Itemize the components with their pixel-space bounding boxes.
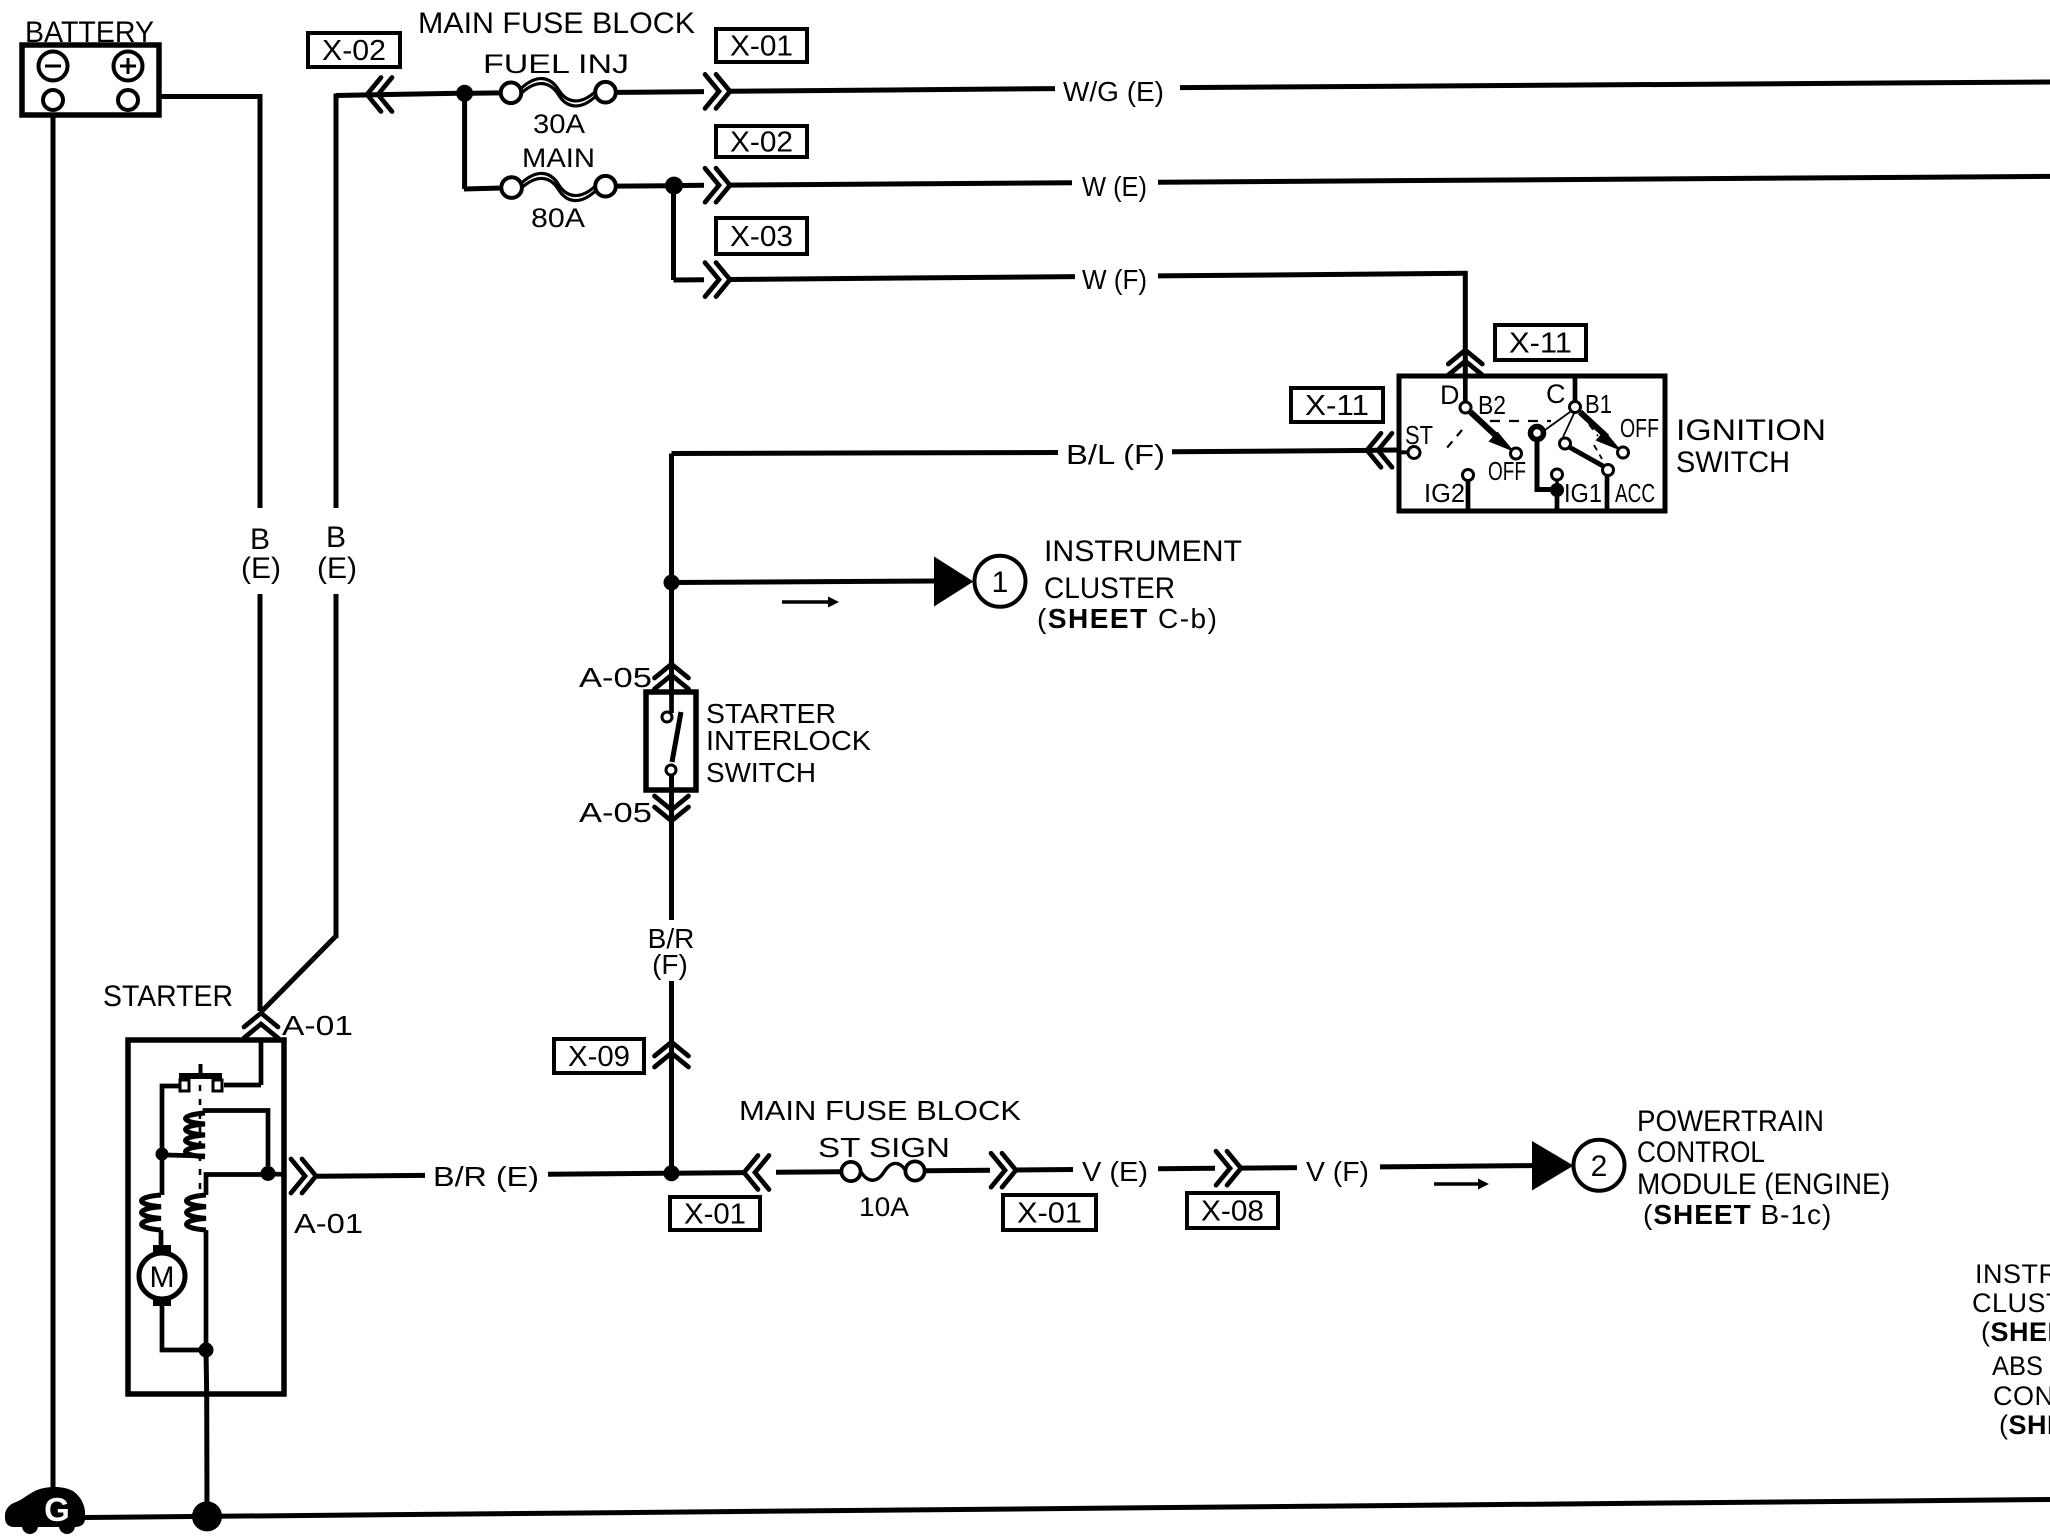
svg-text:W (F): W (F) [1082,264,1147,295]
svg-text:X-03: X-03 [730,221,793,253]
wire B (E) #2 diagonal [262,936,336,1011]
starter hold-in winding L2 [187,1195,207,1230]
wire W/G (E) right segment [1180,82,2050,88]
connector chevron X-02 row2 [705,168,730,202]
wire pull-in winding top [205,1111,268,1167]
wire W/G (E) left segment [729,89,1055,92]
connector X-01 lower mid [1003,1195,1096,1230]
svg-text:X-09: X-09 [568,1041,630,1073]
terminal OFF right [1618,447,1629,458]
battery [22,45,159,115]
svg-text:G: G [44,1491,70,1528]
svg-text:X-02: X-02 [730,127,793,159]
connector X-08 [1187,1193,1278,1228]
svg-text:B1: B1 [1585,389,1612,419]
wire drop to interlock switch [669,454,674,713]
svg-text:MAIN FUSE BLOCK: MAIN FUSE BLOCK [418,7,695,40]
wire rotor to IG1 junction [1537,440,1552,490]
svg-text:W/G (E): W/G (E) [1063,76,1164,107]
wire W (F) drop to ignition switch [1463,271,1468,378]
wire junction to MAIN fuse [462,93,467,189]
svg-text:INSTRUMENT: INSTRUMENT [1044,535,1242,568]
junction IG1 [1550,483,1564,497]
connector chevron X-09 [655,1042,689,1067]
terminal ACC [1603,465,1614,476]
wire fuse to X-01 [616,89,705,95]
wire fuse to X-01 chevron [925,1168,991,1174]
fuse MAIN 80A [464,176,616,198]
wire B (E) #2 lower vertical [334,594,339,938]
wire V (E) right segment [1158,1166,1215,1172]
switch blade B1-OFF [1580,412,1622,451]
wire B/R (F) lower vertical [669,981,674,1168]
svg-text:FUEL INJ: FUEL INJ [483,49,629,79]
starter pull-in winding L1 [186,1113,206,1157]
wire junction to field winding [160,1159,165,1195]
svg-text:B2: B2 [1478,390,1506,420]
wire B/R (E) left segment [315,1173,425,1179]
terminal C/B1 [1570,402,1581,413]
connector X-01 lower left [670,1197,760,1231]
terminal IG2 [1463,470,1474,481]
junction starter solenoid feed [261,1166,276,1181]
wire junction to X-02 chevron [674,183,704,188]
ground symbol G (car body) [5,1487,85,1534]
connector chevron A-01 line [291,1159,316,1193]
wire junction down to W (F) [671,186,676,280]
connector X-02 row2 [716,126,807,159]
connector chevron X-01 mid [991,1153,1016,1187]
svg-text:30A: 30A [533,109,585,139]
svg-text:INTERLOCK: INTERLOCK [706,725,871,756]
connector chevron A-05 bottom [655,796,689,821]
wire battery positive horizontal [159,94,262,99]
connector chevron A-05 top [655,664,689,689]
wire to ST SIGN fuse [776,1169,841,1175]
svg-text:CLUSTER: CLUSTER [1972,1288,2050,1318]
connector chevron A-01 [244,1013,278,1038]
wire motor to junction [162,1306,200,1350]
svg-text:MODULE (ENGINE): MODULE (ENGINE) [1637,1168,1890,1201]
svg-text:X-02: X-02 [322,35,386,67]
svg-text:A-01: A-01 [294,1208,363,1239]
svg-text:STARTER: STARTER [103,980,233,1013]
wire field winding to motor [159,1230,164,1248]
junction instrument cluster tap [664,575,680,591]
connector X-09 [554,1039,644,1073]
wire B/L (F) left segment [672,453,1059,454]
wire B (E) #1 lower vertical [258,594,263,1011]
svg-text:V (F): V (F) [1306,1156,1369,1187]
starter solenoid linkage (dashed) [199,1085,202,1197]
sheet arrow 1 (instrument cluster) [934,556,1026,607]
terminal center (ignition rotor) [1531,427,1544,440]
starter field winding L3 [142,1195,162,1230]
wire W (F) right segment [1158,273,1468,276]
svg-text:V (E): V (E) [1082,1156,1148,1187]
wire B (E) #2 upper vertical [334,94,339,509]
svg-text:C: C [1546,379,1566,409]
wire B/L (F) at switch [1374,448,1399,453]
svg-text:SWITCH: SWITCH [706,757,816,788]
ignition switch position guides [1446,412,1602,459]
starter interlock switch S1 [646,692,696,790]
connector chevron X-11 left line [1367,433,1392,467]
wire to instrument cluster arrow [672,581,937,583]
junction hold-in winding [156,1148,169,1161]
junction battery feed [456,85,473,102]
wire starter to ground bus [204,1394,209,1516]
junction B/R [664,1165,680,1181]
connector X-03 [716,218,807,254]
wire ignition B2 feed [1463,378,1468,402]
svg-text:(SHEET B-1c): (SHEET B-1c) [1999,1410,2050,1440]
svg-text:OFF: OFF [1620,413,1659,443]
wire corner to X-03 chevron [674,277,705,282]
wire fuse MAIN to junction [616,183,669,188]
wire junction to hold-in winding [206,1175,268,1196]
connector chevron X-08 [1216,1151,1241,1185]
svg-text:MAIN FUSE BLOCK: MAIN FUSE BLOCK [739,1095,1021,1126]
wire IG1 link [1555,480,1558,484]
junction starter ground [199,1343,214,1358]
starter M1 box [128,1040,284,1394]
svg-text:MAIN: MAIN [522,143,595,173]
wire contact to winding junction [162,1086,181,1149]
terminal ST [1408,447,1420,459]
wire pull-in winding bottom [166,1155,205,1156]
svg-text:CONTROL: CONTROL [1637,1136,1765,1169]
wire B (E) #1 upper vertical [258,94,263,508]
fuse ST SIGN 10A [841,1161,924,1181]
svg-text:INSTRUMENT: INSTRUMENT [1975,1259,2050,1289]
wire B/L (F) right segment [1172,450,1374,451]
svg-text:B: B [326,521,346,554]
junction ground bus [192,1501,222,1531]
svg-text:(SHEET C-b): (SHEET C-b) [1981,1317,2050,1347]
wire B/R (E) inside starter [268,1172,286,1177]
wire ACC stub [1605,476,1610,509]
svg-text:X-11: X-11 [1509,328,1572,360]
connector X-11 top [1495,325,1586,360]
connector chevron X-02 top [367,78,392,112]
wire W (F) left segment [729,277,1075,280]
connector chevron X-03 [705,263,730,297]
wire V (F) right segment [1380,1166,1533,1167]
svg-text:(SHEET C-b): (SHEET C-b) [1037,603,1218,634]
svg-text:(E): (E) [241,552,281,585]
svg-text:X-01: X-01 [1017,1198,1082,1230]
svg-text:2: 2 [1591,1150,1608,1183]
ignition switch U1 [1399,376,1665,511]
connector chevron X-01 lower [744,1156,769,1190]
wire IG2 stub [1466,481,1471,510]
wire ignition C feed [1573,378,1578,402]
svg-text:A-01: A-01 [282,1010,353,1041]
fuse element MAIN [521,173,596,200]
wire stub X-02 to junction [336,93,459,95]
svg-text:IG2: IG2 [1424,478,1465,508]
svg-text:(SHEET B-1c): (SHEET B-1c) [1643,1199,1832,1230]
switch blade B2-OFF [1471,412,1515,452]
svg-text:IG1: IG1 [1564,478,1602,508]
wire B/R (E) mid segment [548,1173,664,1174]
svg-text:A-05: A-05 [579,797,652,828]
svg-text:(F): (F) [652,949,688,980]
connector chevron X-11 vertical [1448,350,1482,375]
flow arrow instrument cluster [782,597,839,608]
terminal mid [1560,438,1571,449]
svg-text:M: M [150,1261,175,1294]
connector X-02 top [308,33,400,67]
wire starter to box edge [204,1350,210,1394]
sheet arrow 2 (powertrain control module) [1532,1140,1625,1191]
svg-text:ABS: ABS [1992,1351,2043,1381]
fuse element FUEL INJ [521,79,596,106]
svg-text:OFF: OFF [1488,456,1526,486]
svg-text:1: 1 [992,566,1009,599]
svg-text:W (E): W (E) [1082,171,1147,202]
connector X-11 left [1291,388,1383,422]
terminal B2 [1460,402,1471,413]
wire A-01 entry inside starter [259,1042,264,1085]
switch blade mid-ACC [1570,448,1603,467]
wire IG1 stub [1555,490,1560,509]
starter solenoid contact [179,1064,261,1091]
svg-text:80A: 80A [531,203,585,233]
svg-text:ST SIGN: ST SIGN [818,1132,950,1163]
svg-text:X-11: X-11 [1305,390,1369,422]
wire A-01 into starter [259,1038,264,1085]
wire W (E) right segment [1158,176,2050,182]
flow arrow powertrain [1434,1179,1489,1190]
svg-text:ACC: ACC [1615,478,1655,508]
svg-text:SWITCH: SWITCH [1676,446,1790,479]
wire interlock to B/R (F) label [669,775,674,920]
svg-text:B/R (E): B/R (E) [433,1161,539,1192]
wire ground bus [84,1500,2050,1518]
svg-text:X-01: X-01 [684,1199,746,1231]
svg-text:CLUSTER: CLUSTER [1044,572,1175,605]
terminal IG1 [1552,469,1563,480]
svg-text:A-05: A-05 [579,662,652,693]
connector X-01 top [716,29,807,63]
svg-text:IGNITION: IGNITION [1676,414,1826,447]
fuse FUEL INJ 30A [472,82,616,103]
terminal OFF left [1511,448,1522,459]
svg-text:ST: ST [1405,420,1433,450]
wire V (F) left segment [1240,1165,1297,1171]
svg-text:B/L (F): B/L (F) [1066,439,1165,470]
svg-text:X-01: X-01 [730,31,793,63]
svg-text:10A: 10A [859,1192,909,1222]
wire W (E) left segment [729,183,1072,185]
starter motor M [139,1245,185,1306]
svg-text:D: D [1440,380,1460,410]
svg-text:X-08: X-08 [1201,1196,1264,1228]
svg-text:CONTROL: CONTROL [1993,1381,2050,1411]
junction W (E) [665,177,683,195]
wire hold-in winding to junction [204,1230,209,1344]
wire ST stub [1399,450,1407,454]
wire V (E) left segment [1015,1167,1073,1173]
connector chevron X-01 top [705,74,730,108]
wire interlock feed inside box [669,694,674,713]
svg-text:POWERTRAIN: POWERTRAIN [1637,1105,1824,1138]
svg-text:(E): (E) [317,552,357,585]
wire B/R to X-01 chevron [672,1170,745,1176]
wire battery negative to ground [51,115,56,1492]
